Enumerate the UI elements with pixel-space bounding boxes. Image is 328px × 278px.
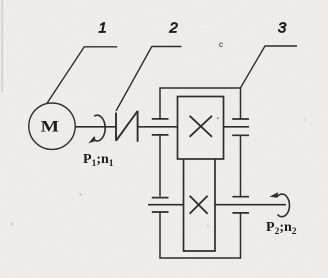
coupling (elastic)	[116, 111, 138, 142]
bearing left-upper	[152, 119, 169, 135]
bearing right-lower	[232, 197, 249, 213]
svg-text:2: 2	[168, 20, 178, 37]
wire input shaft: motor to coupling	[75, 126, 116, 128]
svg-text:M: M	[41, 117, 60, 135]
rotation arrow n2	[271, 193, 290, 217]
gear Z2	[184, 159, 216, 251]
leader line for label 3	[241, 46, 298, 88]
svg-text:1: 1	[98, 20, 106, 37]
wire output shaft: gear Z2 to free end	[215, 204, 286, 206]
svg-text:c: c	[219, 40, 223, 49]
svg-text:3: 3	[278, 20, 287, 37]
bearing right-upper	[232, 119, 249, 135]
bearing left-lower	[152, 198, 169, 212]
gear Z1	[178, 97, 224, 160]
gearbox housing	[160, 88, 241, 258]
motor M	[29, 103, 75, 149]
wire output shaft left stub	[148, 204, 184, 206]
wire input shaft: coupling to gear Z1	[138, 126, 178, 128]
rotation arrow n1	[90, 115, 106, 142]
leader line for label 2	[116, 47, 182, 112]
leader line for label 1	[47, 47, 117, 103]
wire input shaft right stub	[224, 126, 250, 128]
